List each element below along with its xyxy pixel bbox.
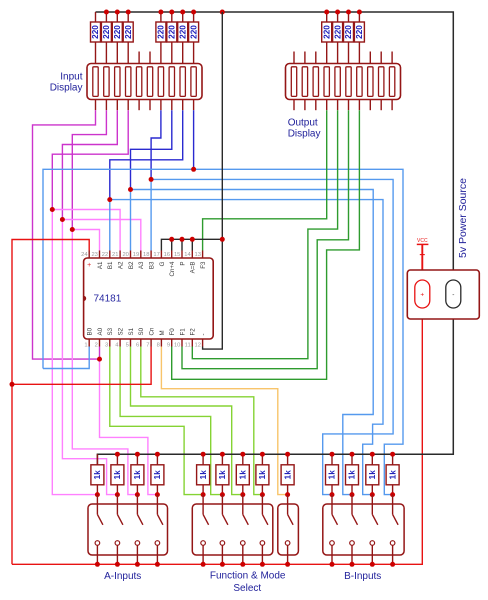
wire S3 chip pin3 to switch bbox=[110, 347, 203, 495]
wire B2 to chip pin20 bbox=[130, 190, 132, 251]
svg-text:1k: 1k bbox=[239, 470, 248, 480]
svg-text:6: 6 bbox=[136, 343, 139, 349]
wire M chip pin8 to switch bbox=[161, 347, 287, 495]
wire A2 to chip pin21 bbox=[52, 210, 120, 251]
resistor RF1 1k bbox=[197, 454, 210, 494]
svg-text:B-Inputs: B-Inputs bbox=[344, 571, 381, 582]
svg-text:+: + bbox=[87, 262, 91, 269]
resistor R12 220 bbox=[354, 12, 364, 64]
resistor RF4 1k bbox=[256, 454, 269, 494]
resistor RA1 1k bbox=[91, 454, 104, 494]
resistor RA2 1k bbox=[111, 454, 124, 494]
input display top stubs bbox=[139, 52, 150, 64]
resistor R11 220 bbox=[344, 12, 354, 64]
svg-text:12: 12 bbox=[195, 343, 201, 349]
svg-text:B1: B1 bbox=[107, 261, 114, 269]
resistor RB1 1k bbox=[326, 454, 339, 494]
svg-text:220: 220 bbox=[168, 25, 177, 39]
svg-text:A2: A2 bbox=[118, 261, 125, 269]
wire GND resistor bus bbox=[97, 308, 453, 465]
svg-text:1k: 1k bbox=[199, 470, 208, 480]
wire B2 net horizontal bbox=[131, 190, 374, 495]
svg-text:-: - bbox=[200, 333, 207, 335]
svg-text:220: 220 bbox=[189, 25, 198, 39]
svg-text:S2: S2 bbox=[118, 327, 125, 335]
svg-text:1k: 1k bbox=[153, 470, 162, 480]
resistor R3 220 bbox=[112, 12, 122, 64]
svg-text:20: 20 bbox=[122, 252, 128, 258]
label 5v Power Source bbox=[457, 178, 469, 258]
svg-text:220: 220 bbox=[91, 25, 100, 39]
svg-text:1k: 1k bbox=[388, 470, 397, 480]
svg-text:11: 11 bbox=[185, 343, 191, 349]
svg-text:220: 220 bbox=[102, 25, 111, 39]
svg-text:S0: S0 bbox=[138, 327, 145, 335]
bargraph display DS2 output bbox=[286, 64, 401, 100]
svg-text:220: 220 bbox=[344, 25, 353, 39]
svg-text:G: G bbox=[159, 261, 166, 266]
wire GND top bus bbox=[96, 12, 454, 280]
svg-text:Display: Display bbox=[288, 129, 321, 140]
svg-text:S3: S3 bbox=[107, 327, 114, 335]
wire B0 display pin10 bbox=[193, 110, 195, 169]
wire S1 chip pin5 to switch bbox=[131, 347, 243, 495]
label Function and Mode Select bbox=[210, 571, 286, 582]
svg-text:B2: B2 bbox=[128, 261, 135, 269]
svg-text:220: 220 bbox=[333, 25, 342, 39]
input display bottom stubs bbox=[96, 100, 194, 111]
switch bank SW-B bbox=[323, 495, 404, 565]
wire A3 to switch resistor bbox=[62, 220, 117, 495]
wire B3 display pin7 bbox=[151, 110, 161, 179]
svg-text:1k: 1k bbox=[283, 470, 292, 480]
resistor R8 220 bbox=[189, 12, 199, 64]
node dots misc bbox=[10, 167, 225, 387]
svg-text:A1: A1 bbox=[97, 261, 104, 269]
wire VCC bottom bus bbox=[12, 308, 422, 564]
svg-text:1k: 1k bbox=[348, 470, 357, 480]
wire B0 net horizontal bbox=[43, 169, 403, 494]
svg-text:VCC: VCC bbox=[417, 238, 428, 244]
wire A0 chip pin2 lead bbox=[99, 347, 101, 360]
5v power source PS1 bbox=[407, 270, 479, 319]
wire A2 display pin4 bbox=[52, 110, 128, 209]
resistor RA4 1k bbox=[151, 454, 164, 494]
wire Cn chip pin7 to rail bbox=[12, 347, 151, 385]
wire B3 to chip pin18 bbox=[150, 179, 152, 250]
svg-text:Cn: Cn bbox=[149, 327, 156, 335]
svg-text:Function & Mode: Function & Mode bbox=[210, 571, 286, 582]
resistor RF5 1k bbox=[281, 454, 294, 494]
resistor R1 220 bbox=[91, 12, 101, 64]
IC U1 top pin numbers bbox=[81, 252, 201, 258]
svg-text:1k: 1k bbox=[328, 470, 337, 480]
svg-text:22: 22 bbox=[102, 252, 108, 258]
wire VCC symbol lead bbox=[421, 244, 423, 280]
label Output Display bbox=[288, 117, 318, 128]
svg-text:5: 5 bbox=[126, 343, 129, 349]
svg-text:P: P bbox=[179, 262, 186, 266]
svg-text:A=B: A=B bbox=[190, 262, 197, 274]
svg-text:18: 18 bbox=[143, 252, 149, 258]
svg-text:Cn+4: Cn+4 bbox=[169, 261, 176, 277]
wire B3 net horizontal bbox=[151, 179, 393, 494]
svg-text:1k: 1k bbox=[113, 470, 122, 480]
resistor RF3 1k bbox=[236, 454, 249, 494]
wire A3 to chip pin19 bbox=[62, 220, 140, 251]
svg-text:Select: Select bbox=[233, 583, 261, 594]
svg-text:F3: F3 bbox=[200, 261, 207, 269]
svg-text:17: 17 bbox=[153, 252, 159, 258]
label B-Inputs bbox=[344, 571, 381, 582]
wire F2 chip pin11 to output display bbox=[192, 110, 337, 359]
wire GND chip pins 17-14 bbox=[161, 239, 222, 250]
svg-text:1k: 1k bbox=[133, 470, 142, 480]
wire A1 to chip pin23 bbox=[72, 230, 99, 251]
svg-text:B0: B0 bbox=[87, 327, 94, 335]
svg-text:Output: Output bbox=[288, 117, 318, 128]
wire F1 chip pin10 to output display bbox=[182, 110, 349, 369]
junction dots below 1k resistors bbox=[95, 492, 395, 497]
svg-text:7: 7 bbox=[146, 343, 149, 349]
resistor RF2 1k bbox=[216, 454, 229, 494]
svg-text:3: 3 bbox=[105, 343, 108, 349]
svg-text:10: 10 bbox=[174, 343, 180, 349]
wire B2 display pin8 bbox=[131, 110, 172, 189]
svg-text:F0: F0 bbox=[169, 328, 176, 336]
svg-text:21: 21 bbox=[112, 252, 118, 258]
wire A3 display pin3 bbox=[62, 110, 117, 219]
svg-text:220: 220 bbox=[157, 25, 166, 39]
svg-text:Display: Display bbox=[50, 83, 83, 94]
svg-text:F2: F2 bbox=[190, 328, 197, 336]
wire A1 to switch resistor bbox=[72, 230, 137, 495]
junction dots on resistor bus bbox=[115, 452, 395, 457]
svg-text:220: 220 bbox=[178, 25, 187, 39]
svg-text:1: 1 bbox=[84, 343, 87, 349]
resistor R7 220 bbox=[178, 12, 188, 64]
svg-text:23: 23 bbox=[91, 252, 97, 258]
svg-text:1k: 1k bbox=[258, 470, 267, 480]
svg-text:A0: A0 bbox=[97, 327, 104, 335]
resistor RB2 1k bbox=[346, 454, 359, 494]
wire A0 to switch resistor bbox=[100, 359, 158, 495]
VCC symbol bbox=[417, 238, 429, 255]
svg-text:220: 220 bbox=[124, 25, 133, 39]
svg-text:A3: A3 bbox=[138, 261, 145, 269]
wire GND chip pin12 riser bbox=[203, 12, 223, 349]
svg-text:Input: Input bbox=[60, 71, 82, 82]
IC U1 bottom pin labels bbox=[87, 327, 207, 335]
svg-text:16: 16 bbox=[164, 252, 170, 258]
IC U1 74181 bbox=[84, 251, 214, 347]
svg-text:S1: S1 bbox=[128, 327, 135, 335]
IC U1 label 74181 bbox=[94, 294, 122, 305]
IC U1 top pin labels bbox=[87, 261, 207, 277]
label Input Display bbox=[60, 71, 82, 82]
switch bank SW-F bbox=[192, 495, 272, 565]
svg-text:2: 2 bbox=[95, 343, 98, 349]
svg-text:14: 14 bbox=[184, 252, 191, 258]
svg-text:9: 9 bbox=[167, 343, 170, 349]
svg-text:8: 8 bbox=[157, 343, 160, 349]
resistor R4 220 bbox=[123, 12, 133, 64]
IC U1 bottom pin numbers bbox=[84, 343, 201, 349]
svg-text:M: M bbox=[159, 330, 166, 335]
resistor RB4 1k bbox=[386, 454, 399, 494]
wire B0 to chip pin1 bbox=[43, 347, 89, 369]
svg-text:220: 220 bbox=[355, 25, 364, 39]
svg-text:24: 24 bbox=[81, 252, 88, 258]
resistor RA3 1k bbox=[131, 454, 144, 494]
svg-text:5v Power Source: 5v Power Source bbox=[457, 178, 469, 258]
switch bank SW-A bbox=[88, 495, 168, 565]
svg-text:74181: 74181 bbox=[94, 294, 122, 305]
svg-text:-: - bbox=[452, 292, 454, 299]
resistor RB3 1k bbox=[366, 454, 379, 494]
wire A2 to switch resistor bbox=[52, 210, 97, 495]
svg-text:1k: 1k bbox=[368, 470, 377, 480]
output display top stubs bbox=[294, 52, 392, 64]
wire S2 chip pin4 to switch bbox=[120, 347, 222, 495]
wire B1 to chip pin22 bbox=[109, 200, 111, 251]
resistor R10 220 bbox=[333, 12, 343, 64]
wire A0 display to chip A0 bbox=[33, 110, 100, 359]
resistor R5 220 bbox=[156, 12, 166, 64]
svg-text:1k: 1k bbox=[218, 470, 227, 480]
wire B1 display pin9 bbox=[110, 110, 183, 199]
svg-text:220: 220 bbox=[113, 25, 122, 39]
svg-text:A-Inputs: A-Inputs bbox=[104, 571, 141, 582]
svg-text:B3: B3 bbox=[149, 261, 156, 269]
wire S0 chip pin6 to switch bbox=[141, 347, 263, 495]
resistor R6 220 bbox=[167, 12, 177, 64]
label A-Inputs bbox=[104, 571, 141, 582]
svg-text:15: 15 bbox=[174, 252, 180, 258]
resistor R2 220 bbox=[101, 12, 111, 64]
wire B1 net horizontal bbox=[110, 200, 383, 495]
svg-text:13: 13 bbox=[195, 252, 201, 258]
wire VCC left rail bbox=[12, 240, 89, 565]
resistor R9 220 bbox=[322, 12, 332, 64]
bargraph display DS1 input bbox=[87, 64, 202, 100]
wire F0 chip pin9 to output display bbox=[172, 110, 360, 379]
output display bottom stubs bbox=[294, 100, 392, 111]
svg-text:+: + bbox=[420, 292, 424, 299]
wire F3 chip pin13 to output display bbox=[203, 110, 327, 250]
wire A1 display pin2 bbox=[72, 110, 106, 229]
svg-text:F1: F1 bbox=[179, 328, 186, 336]
switch bank SW-M bbox=[278, 495, 299, 565]
junction dots on top bus bbox=[104, 10, 362, 15]
svg-text:19: 19 bbox=[133, 252, 139, 258]
svg-text:1k: 1k bbox=[93, 470, 102, 480]
svg-text:220: 220 bbox=[322, 25, 331, 39]
junction dots on bottom bus bbox=[95, 562, 395, 567]
